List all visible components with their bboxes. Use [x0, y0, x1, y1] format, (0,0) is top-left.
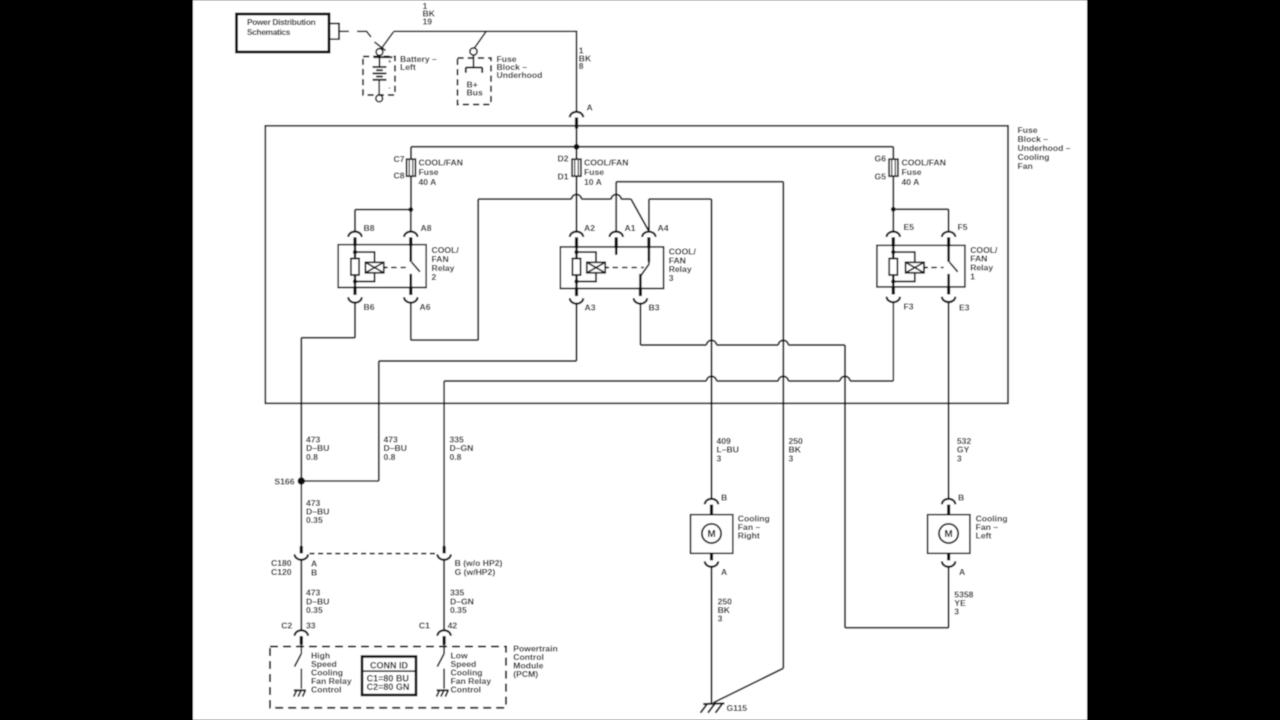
wire fan left return [845, 627, 949, 629]
connector pin B6 [353, 287, 356, 295]
svg-text:3: 3 [717, 453, 722, 463]
svg-text:3: 3 [957, 453, 962, 463]
fuse block - underhood B+ terminal [470, 48, 477, 55]
white drawing background [193, 0, 1087, 720]
connector C180/C120 left half [300, 546, 303, 553]
svg-text:33: 33 [306, 621, 316, 631]
wire fuse G5 down [892, 176, 894, 209]
svg-text:0.35: 0.35 [306, 515, 323, 525]
svg-text:Fuse: Fuse [419, 167, 439, 177]
wire hook to switch [357, 31, 371, 37]
wire A3 to 473 D-BU (relay 3) [379, 360, 577, 362]
right letterbox bar [1087, 0, 1280, 720]
wire fuse C8 down [410, 176, 412, 209]
battery positive terminal [376, 49, 383, 56]
svg-text:-: - [389, 86, 391, 92]
wire fuse D1 down to A2 [576, 176, 578, 231]
svg-text:F5: F5 [958, 222, 968, 232]
svg-text:A: A [721, 567, 727, 577]
switch blade cross stroke [375, 42, 386, 51]
connector pin B (fan right) [705, 499, 718, 504]
wire switch to top bus [381, 32, 394, 50]
svg-text:Control: Control [451, 685, 482, 695]
connector pin E3 [947, 286, 950, 294]
ground G115 [703, 702, 724, 705]
svg-text:Bus: Bus [467, 88, 483, 98]
svg-text:0.8: 0.8 [384, 452, 396, 462]
svg-text:Underhood: Underhood [497, 70, 543, 80]
svg-text:1: 1 [970, 272, 975, 282]
power distribution schematics box [237, 14, 330, 52]
svg-text:M: M [944, 529, 952, 540]
connector pin B3 [639, 288, 642, 296]
svg-text:A4: A4 [658, 223, 669, 233]
svg-text:A2: A2 [584, 223, 595, 233]
svg-text:B: B [958, 492, 964, 502]
svg-text:2: 2 [432, 272, 437, 282]
battery - left dashed box [363, 57, 395, 96]
connector pin F5 [942, 232, 955, 237]
label: Power Distribution Schematics [247, 17, 316, 37]
svg-text:E5: E5 [904, 222, 915, 232]
svg-text:3: 3 [669, 273, 674, 283]
branch to fuse block B+ [474, 31, 486, 48]
wire A4 riser [648, 199, 650, 231]
svg-text:C1: C1 [419, 621, 430, 631]
svg-text:B: B [721, 492, 727, 502]
svg-text:+: + [388, 60, 392, 66]
wire 250 BK drop [782, 182, 784, 669]
svg-text:B3: B3 [649, 303, 660, 313]
fuse block - underhood - cooling fan box [265, 126, 1008, 404]
wire: 1 BK 19 horizontal bus [394, 30, 578, 32]
junction above relay 1 [891, 207, 896, 212]
svg-text:C120: C120 [271, 567, 292, 577]
svg-text:19: 19 [423, 16, 433, 26]
junction above relay 2 [408, 207, 413, 212]
svg-text:A8: A8 [421, 223, 432, 233]
fuse block underhood dashed box [458, 58, 492, 105]
connector pin E5 [887, 232, 900, 237]
svg-text:C2=80 GN: C2=80 GN [367, 682, 410, 692]
wire: 1 BK 8 vertical [576, 31, 578, 111]
wire A4 to fan right feed [649, 198, 712, 200]
off-page connector bracket [329, 23, 340, 25]
fuse D2/D1 COOL/FAN 10A [572, 159, 581, 176]
svg-text:D2: D2 [558, 154, 569, 164]
connector pin B (fan left) [942, 499, 955, 504]
wire from A into fuse bus [576, 129, 578, 160]
connector pin A4 [642, 232, 655, 237]
connector pin F3 [892, 286, 895, 294]
svg-text:A3: A3 [585, 303, 596, 313]
svg-text:B: B [311, 568, 317, 578]
svg-text:0.35: 0.35 [450, 605, 467, 615]
svg-text:A1: A1 [625, 223, 636, 233]
connector C180/C120 right half [443, 546, 446, 553]
left letterbox bar [0, 0, 193, 720]
connector pin A3 [575, 288, 578, 296]
battery negative terminal [376, 95, 383, 102]
svg-text:A: A [959, 567, 965, 577]
svg-text:0.8: 0.8 [450, 452, 462, 462]
wire B6 to 473 D-BU [301, 337, 355, 339]
connector pin A (fan left) [947, 553, 950, 560]
wire A6 to A4 (crossover) [478, 198, 571, 200]
svg-text:C2: C2 [281, 621, 292, 631]
high speed driver switch and ground [300, 645, 302, 654]
wire bus to fuse G6 [892, 147, 894, 159]
svg-text:40 A: 40 A [419, 177, 437, 187]
svg-text:A: A [587, 102, 593, 112]
connector C2 pin 33 [295, 630, 308, 635]
connector pin A1 [610, 232, 623, 237]
svg-text:Control: Control [311, 685, 342, 695]
svg-text:D1: D1 [558, 172, 569, 182]
wire to relay 2 contact [410, 210, 412, 232]
relay COOL/FAN Relay 3 [560, 247, 663, 289]
connector A at fuse block [570, 112, 583, 117]
svg-text:3: 3 [954, 607, 959, 617]
svg-text:8: 8 [579, 61, 584, 71]
svg-text:Left: Left [400, 62, 416, 72]
connector C1 pin 42 [437, 630, 450, 635]
svg-text:G (w/HP2): G (w/HP2) [455, 567, 496, 577]
relay COOL/FAN Relay 2 [338, 245, 426, 288]
connector pin B8 [348, 232, 361, 237]
svg-text:M: M [707, 529, 715, 540]
connector pin A (fan right) [710, 553, 713, 560]
relay COOL/FAN Relay 1 [877, 245, 965, 287]
wire to relay 1 contact F5 [893, 208, 948, 210]
svg-text:3: 3 [718, 614, 723, 624]
svg-text:G5: G5 [875, 172, 887, 182]
connector pin A2 [570, 232, 583, 237]
svg-text:3: 3 [789, 453, 794, 463]
svg-text:COOL/FAN: COOL/FAN [419, 157, 463, 167]
svg-text:S166: S166 [274, 477, 294, 487]
wire A6 to crossover riser [411, 339, 478, 341]
svg-text:Power Distribution: Power Distribution [247, 17, 316, 27]
svg-text:A6: A6 [420, 302, 431, 312]
cooling fan - left motor [928, 515, 970, 554]
svg-text:B6: B6 [364, 302, 375, 312]
connector pin A8 [404, 232, 417, 237]
svg-text:B8: B8 [364, 223, 375, 233]
svg-text:0.35: 0.35 [306, 605, 323, 615]
wire bus to fuse C7 [410, 147, 412, 159]
cooling fan - right motor [691, 515, 733, 554]
wire A1 to 250 BK drop [615, 182, 617, 232]
svg-text:COOL/FAN: COOL/FAN [902, 157, 946, 167]
svg-text:COOL/FAN: COOL/FAN [584, 157, 628, 167]
svg-text:40 A: 40 A [902, 177, 920, 187]
svg-text:E3: E3 [959, 302, 970, 312]
junction at bus [574, 144, 580, 150]
svg-text:G6: G6 [875, 154, 887, 164]
fuse G6/G5 COOL/FAN 40A [889, 159, 898, 176]
svg-text:Left: Left [976, 531, 992, 541]
wire to relay 1 coil E5 [892, 209, 894, 231]
splice S166 [298, 477, 305, 484]
svg-text:C8: C8 [394, 170, 405, 180]
low speed driver switch and ground [443, 645, 445, 654]
svg-text:Fuse: Fuse [902, 167, 922, 177]
connector C180/C120 dashed mating line [310, 553, 437, 555]
wire 335 D-GN to relay 1 coil [444, 380, 706, 382]
wire 250 BK diagonal to ground [714, 668, 784, 702]
svg-text:(PCM): (PCM) [513, 669, 538, 679]
svg-text:Fan: Fan [1018, 161, 1033, 171]
connector pin A6 [409, 287, 412, 295]
svg-text:10 A: 10 A [584, 177, 602, 187]
svg-text:Schematics: Schematics [247, 27, 291, 37]
fuse feed bus [411, 146, 893, 148]
B+ bus bar [473, 55, 475, 67]
svg-text:F3: F3 [904, 301, 914, 311]
svg-text:Fuse: Fuse [584, 167, 604, 177]
relay 3 unused contact A1 stub [615, 247, 618, 255]
CONN ID table [362, 657, 416, 696]
wire S166 down [300, 481, 302, 546]
fuse C7/C8 COOL/FAN 40A [407, 159, 416, 176]
wire B3 to fan left return [640, 344, 706, 346]
battery cell plates [379, 56, 381, 67]
svg-text:Right: Right [738, 531, 760, 541]
svg-text:0.8: 0.8 [306, 452, 318, 462]
powertrain control module dashed box [270, 647, 506, 708]
svg-text:CONN ID: CONN ID [370, 660, 409, 670]
svg-text:G115: G115 [727, 703, 748, 713]
svg-text:C7: C7 [394, 154, 405, 164]
wire to relay 2 coil [355, 209, 411, 211]
svg-text:42: 42 [448, 621, 458, 631]
